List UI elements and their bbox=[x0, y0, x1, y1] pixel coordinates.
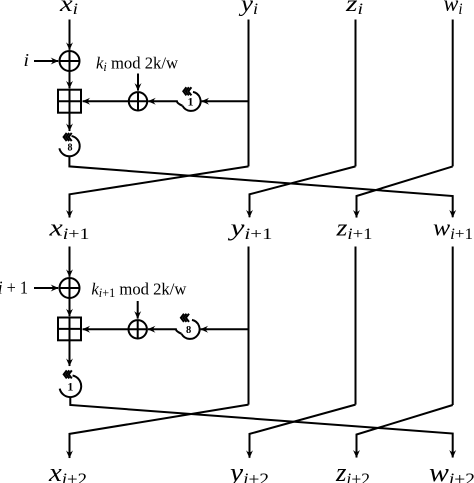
xor U4 bbox=[129, 320, 147, 338]
svg-text:zi+2: zi+2 bbox=[335, 458, 370, 483]
wire R2 out to w_i+1 bbox=[69, 156, 452, 217]
modular adder A2 bbox=[58, 318, 81, 341]
wire i to U1 bbox=[34, 60, 58, 62]
svg-text:i + 1: i + 1 bbox=[0, 278, 28, 298]
wire key to XOR U4 bbox=[137, 301, 139, 319]
svg-text:yi: yi bbox=[239, 0, 258, 18]
rotate-left-8 R2 bbox=[59, 133, 79, 156]
wire w_i+1 vertical bbox=[452, 247, 454, 406]
rotate-left-8 R3 bbox=[181, 314, 200, 339]
wire w_i vertical bbox=[452, 20, 454, 167]
svg-text:zi+1: zi+1 bbox=[335, 216, 372, 243]
wire y_i to x_i+1 bbox=[70, 166, 249, 217]
svg-text:xi+1: xi+1 bbox=[48, 216, 89, 243]
wire key to XOR U2 bbox=[137, 74, 139, 91]
wire U4 to A2 bbox=[83, 328, 129, 330]
wire R4 out to w_i+2 bbox=[70, 397, 452, 457]
wire y_i to R1 bbox=[202, 100, 249, 102]
wire z_i vertical bbox=[355, 20, 357, 167]
wire z_i+1 vertical bbox=[355, 247, 357, 405]
svg-text:ki+1 mod 2k/w: ki+1 mod 2k/w bbox=[91, 280, 187, 301]
wire y_i+1 vertical bbox=[248, 247, 250, 405]
svg-text:ki mod 2k/w: ki mod 2k/w bbox=[96, 54, 179, 75]
svg-text:8: 8 bbox=[67, 143, 72, 154]
svg-text:1: 1 bbox=[188, 95, 194, 109]
svg-text:wi: wi bbox=[444, 0, 463, 18]
svg-text:8: 8 bbox=[186, 325, 191, 336]
rotate-left-1 R4 bbox=[60, 370, 82, 397]
wire z_i+1 to y_i+2 bbox=[250, 405, 356, 458]
wire y_i+1 to R3 bbox=[201, 328, 249, 330]
modular adder A1 bbox=[58, 90, 81, 113]
wire A2 to rotate-left-1 R4 bbox=[69, 340, 71, 366]
wire A1 to rotate-left-8 R2 bbox=[69, 113, 71, 131]
wire U2 to A1 bbox=[83, 100, 129, 102]
wire w_i+1 to z_i+2 bbox=[357, 405, 453, 458]
wire R3 to U4 bbox=[148, 329, 182, 334]
wire U1 to adder A1 bbox=[69, 71, 71, 88]
svg-text:1: 1 bbox=[67, 380, 73, 394]
svg-text:xi+2: xi+2 bbox=[48, 458, 87, 483]
wire y_i vertical bbox=[248, 20, 250, 167]
xor U3 bbox=[60, 278, 80, 298]
wire U3 to adder A2 bbox=[69, 298, 71, 316]
wire R1 to U2 bbox=[148, 101, 182, 106]
wire z_i to y_i+1 bbox=[250, 166, 356, 217]
xor U2 bbox=[129, 92, 147, 110]
wire x_i+1 to XOR U3 bbox=[69, 247, 71, 277]
wire w_i to z_i+1 bbox=[357, 166, 453, 217]
svg-text:yi+2: yi+2 bbox=[227, 458, 269, 483]
svg-text:xi: xi bbox=[59, 0, 78, 18]
svg-text:zi: zi bbox=[345, 0, 363, 18]
svg-text:wi+1: wi+1 bbox=[433, 216, 473, 243]
wire y_i+1 to x_i+2 bbox=[70, 405, 249, 458]
svg-text:i: i bbox=[24, 50, 30, 70]
wire x_i to XOR U1 bbox=[69, 20, 71, 50]
svg-text:yi+1: yi+1 bbox=[228, 216, 273, 243]
svg-text:wi+2: wi+2 bbox=[429, 458, 474, 483]
xor U1 bbox=[60, 51, 80, 71]
wire i+1 to U3 bbox=[34, 287, 58, 289]
rotate-left-1 R1 bbox=[183, 87, 201, 111]
